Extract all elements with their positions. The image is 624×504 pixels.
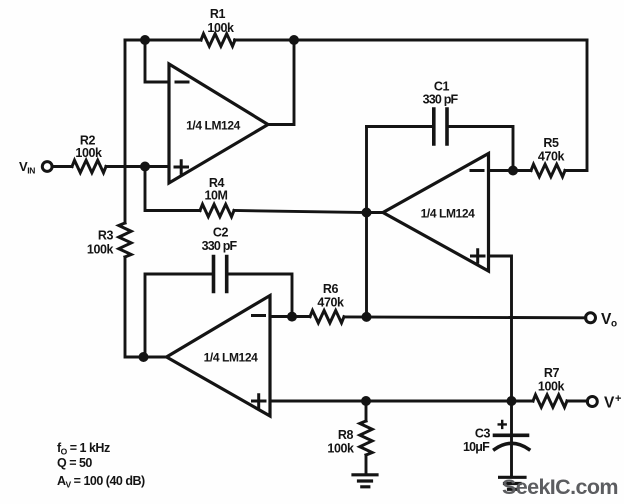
svg-text:1/4 LM124: 1/4 LM124 [204, 351, 258, 365]
svg-text:R5: R5 [543, 136, 559, 150]
op-amp U2 (1/4 LM124, pointing left) [383, 154, 489, 272]
svg-text:SeekIC.com: SeekIC.com [502, 475, 618, 499]
svg-text:Vo: Vo [601, 311, 617, 330]
svg-text:330 pF: 330 pF [423, 93, 459, 107]
U1 inverting input minus sign [176, 81, 188, 84]
wire: C3 to ground [510, 435, 513, 476]
svg-text:470k: 470k [317, 296, 344, 310]
junction dot: R8 node on V+ rail [361, 396, 371, 406]
wire: C2 loop left horizontal and down to U3 apex node [145, 274, 212, 357]
junction dot: U3 apex node [139, 352, 149, 362]
U2 inverting input minus sign [471, 169, 483, 172]
svg-text:C3: C3 [475, 427, 491, 441]
svg-text:R7: R7 [544, 366, 560, 380]
wire: R2 to U1 plus input (crosses left vertical, no dot) [106, 165, 169, 168]
svg-text:fO = 1 kHz: fO = 1 kHz [57, 441, 110, 457]
svg-text:100k: 100k [207, 21, 234, 35]
U1 non-inverting input plus sign [175, 161, 188, 173]
wire: middle vertical (C1 left leg through apex node down to VO line) [365, 127, 368, 317]
wire: VO line (U3 minus stub, through R6 node, to VO terminal) [270, 317, 586, 318]
wire: U1 output up to top bus [268, 40, 294, 125]
svg-text:100k: 100k [75, 146, 102, 160]
wire: minus node to R5 [513, 169, 531, 172]
wire: left vertical from top bus down to R3 [124, 40, 127, 223]
junction dot: VIN node at plus input [140, 162, 150, 172]
svg-text:Q = 50: Q = 50 [57, 456, 92, 470]
junction dot: R6/middle-vertical node on VO line [362, 312, 372, 322]
junction dot: U2 minus node [508, 166, 518, 176]
U3 non-inverting input plus sign [253, 395, 266, 407]
wire: R4 to U2 apex node [234, 211, 367, 213]
wire: VIN node down and right to R4 [145, 167, 200, 211]
junction dot: U2 apex node [362, 208, 372, 218]
wire: C1 loop right horizontal and down to U2 minus node [449, 127, 513, 171]
wire: U2 apex to its node [367, 211, 384, 214]
svg-text:100k: 100k [538, 380, 565, 394]
ground (below R8) [353, 475, 377, 487]
op-amp U1 (1/4 LM124, pointing right) [169, 64, 268, 183]
resistor R2 [72, 160, 106, 172]
junction dot: top bus at x=145 [140, 35, 150, 45]
svg-text:AV = 100 (40 dB): AV = 100 (40 dB) [57, 474, 145, 490]
svg-text:10M: 10M [204, 189, 227, 203]
svg-text:1/4 LM124: 1/4 LM124 [421, 207, 475, 221]
svg-text:R8: R8 [338, 428, 354, 442]
junction dot: C2 right node on VO line [287, 312, 297, 322]
wire: R8 node down to R8 [365, 401, 368, 421]
svg-text:V+: V+ [604, 393, 621, 412]
op-amp U3 (1/4 LM124, pointing left) [167, 296, 271, 417]
svg-text:R3: R3 [98, 229, 114, 243]
capacitor C3 (polarized) top plate [495, 433, 528, 437]
wire: minus-input stub of U1 from top bus [145, 40, 169, 82]
junction dot: top bus at x=294 [289, 35, 299, 45]
svg-text:1/4 LM124: 1/4 LM124 [186, 119, 240, 133]
supply terminal V+ [587, 397, 597, 407]
output terminal VO [586, 313, 596, 323]
resistor R6 [310, 311, 344, 323]
wire: R7 to V+ terminal [567, 400, 588, 403]
resistor R1 [201, 34, 235, 46]
wire: R5 right up the far-right vertical to top bus [565, 40, 587, 171]
wire: C3 node down to C3 top plate [510, 401, 513, 434]
resistor R4 [200, 204, 234, 216]
U2 non-inverting input plus sign [472, 250, 485, 262]
svg-text:C1: C1 [434, 80, 450, 94]
svg-text:470k: 470k [538, 150, 565, 164]
svg-text:VIN: VIN [19, 159, 35, 176]
wire: C1 loop left horizontal [367, 125, 433, 128]
svg-text:100k: 100k [327, 442, 354, 456]
svg-text:100k: 100k [87, 243, 114, 257]
capacitor C3 curved plate [495, 443, 529, 449]
wire: R3 bottom down and right to op-amp U3 apex node [125, 257, 144, 357]
wire: V+ rail (U3 plus stub through R8 and C3 nodes to R7) [270, 400, 533, 403]
input terminal VIN [42, 162, 52, 172]
resistor R5 [531, 164, 565, 176]
capacitor C1 [434, 109, 447, 144]
wire: top feedback bus (node of R1 left to far right vertical) [125, 39, 587, 42]
ground (below C3) [500, 477, 525, 489]
svg-text:R6: R6 [323, 282, 339, 296]
resistor R7 [533, 395, 567, 407]
junction dot: C3/R7 node on V+ rail [507, 396, 517, 406]
wire: R8 to ground [365, 455, 368, 474]
wire: VIN to R2 [52, 165, 72, 168]
svg-text:330 pF: 330 pF [202, 239, 238, 253]
resistor R3 (vertical) [119, 223, 131, 257]
resistor R8 (vertical) [360, 421, 372, 455]
wire: C2 loop right leg up from VO line [228, 274, 292, 317]
wire: U3 apex stub [144, 356, 167, 359]
svg-text:C2: C2 [213, 226, 229, 240]
svg-text:10μF: 10μF [463, 440, 490, 454]
svg-text:R1: R1 [210, 7, 226, 21]
capacitor C2 [214, 257, 227, 292]
wire: U2 minus stub [489, 169, 514, 172]
capacitor C3 polarity plus sign [499, 421, 506, 428]
wire: U2 plus stub and long vertical down to V+ rail [489, 256, 512, 401]
U3 inverting input minus sign [253, 314, 265, 317]
